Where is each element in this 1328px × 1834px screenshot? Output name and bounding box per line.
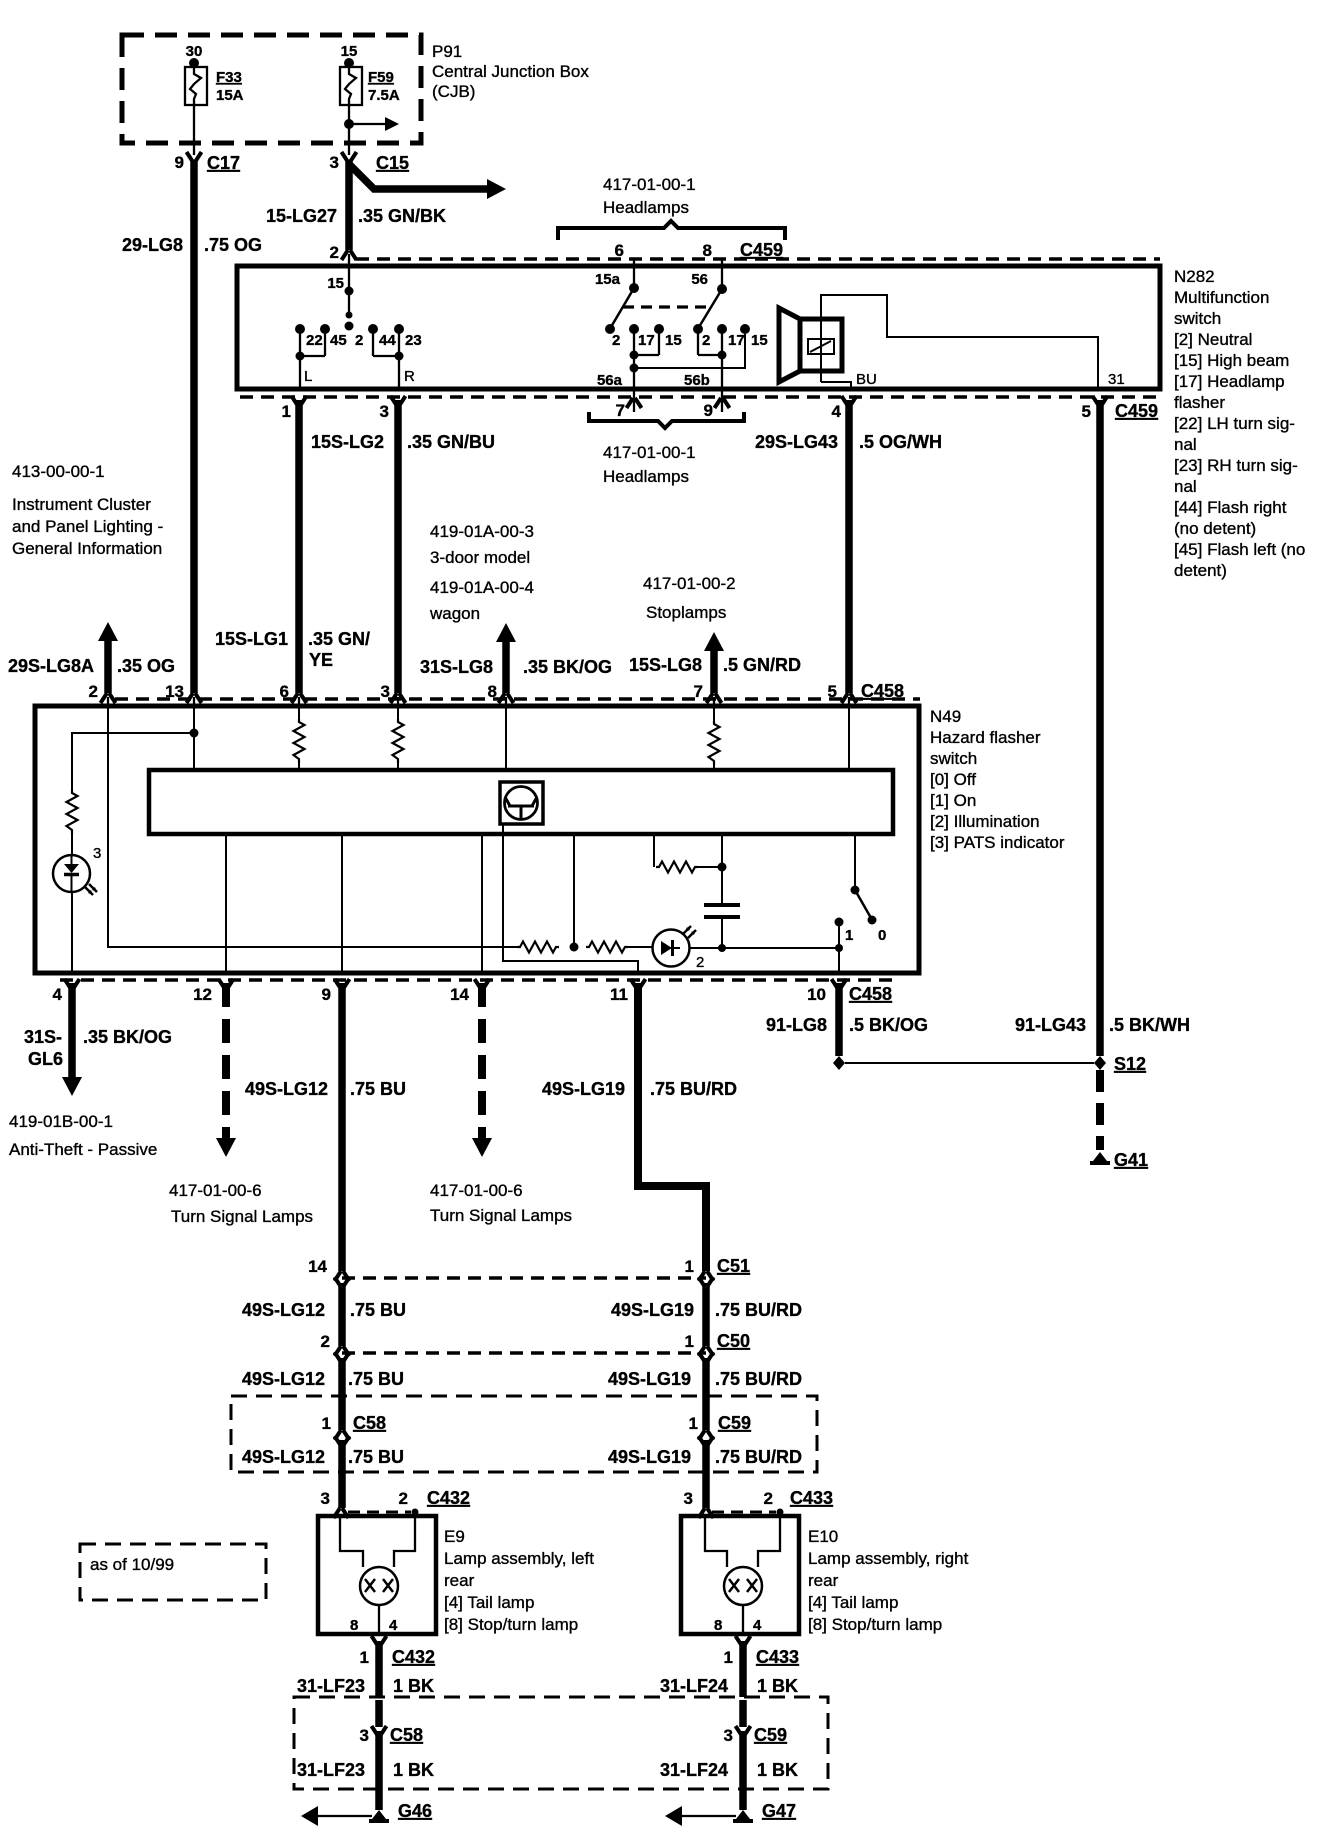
svg-text:Lamp assembly, left: Lamp assembly, left <box>444 1549 594 1568</box>
capacitor C1 <box>721 867 723 903</box>
svg-text:8: 8 <box>703 241 712 260</box>
svg-text:417-01-00-6: 417-01-00-6 <box>430 1181 523 1200</box>
svg-text:GL6: GL6 <box>28 1049 63 1069</box>
svg-text:4: 4 <box>53 985 63 1004</box>
wire 29-LG8 .75 OG (C17 pin 9 down to hazard switch pin 13) <box>190 161 198 693</box>
connector C50 dashed row <box>342 1351 706 1355</box>
svg-text:7: 7 <box>694 682 703 701</box>
wire 91-LG8 (pin 10 to splice S12) <box>835 983 843 1056</box>
wire pin 2 internal routing (down then right along y=947) <box>108 706 519 947</box>
svg-text:C17: C17 <box>207 153 240 173</box>
svg-text:1 BK: 1 BK <box>393 1760 434 1780</box>
svg-text:417-01-00-2: 417-01-00-2 <box>643 574 736 593</box>
svg-text:49S-LG19: 49S-LG19 <box>608 1447 691 1467</box>
svg-text:nal: nal <box>1174 435 1197 454</box>
svg-text:.35 GN/BK: .35 GN/BK <box>358 206 446 226</box>
svg-text:.75 BU: .75 BU <box>348 1369 404 1389</box>
svg-text:2: 2 <box>330 243 339 262</box>
resistor R3b (pin 3 stem) <box>397 706 399 719</box>
svg-text:45: 45 <box>330 332 347 349</box>
svg-text:23: 23 <box>405 332 422 349</box>
resistor R2 (right of junction) <box>586 942 628 953</box>
svg-text:C59: C59 <box>754 1725 787 1745</box>
svg-text:22: 22 <box>306 332 323 349</box>
svg-text:3: 3 <box>380 402 389 421</box>
wire ground bus arrow left (G47) <box>680 1815 736 1817</box>
E9 dual filament bulb <box>360 1567 398 1605</box>
svg-text:[17] Headlamp: [17] Headlamp <box>1174 372 1285 391</box>
transistor U1 symbol <box>500 782 543 824</box>
svg-text:(no detent): (no detent) <box>1174 519 1256 538</box>
svg-text:15S-LG2: 15S-LG2 <box>311 432 384 452</box>
svg-text:1 BK: 1 BK <box>393 1676 434 1696</box>
wire PATS lamp to pin 4 <box>71 892 73 973</box>
svg-text:.75 BU/RD: .75 BU/RD <box>650 1079 737 1099</box>
wire horn feed (thin loop to pin 31) <box>821 295 1098 389</box>
svg-text:[44] Flash right: [44] Flash right <box>1174 498 1287 517</box>
svg-text:1 BK: 1 BK <box>757 1676 798 1696</box>
svg-text:4: 4 <box>389 1617 398 1634</box>
svg-text:2: 2 <box>321 1332 330 1351</box>
svg-text:.5 BK/WH: .5 BK/WH <box>1109 1015 1190 1035</box>
svg-text:31-LF24: 31-LF24 <box>660 1760 728 1780</box>
resistor R4 (horizontal above capacitor) <box>656 862 698 873</box>
svg-text:and Panel Lighting -: and Panel Lighting - <box>12 517 163 536</box>
svg-text:2: 2 <box>764 1489 773 1508</box>
svg-text:417-01-00-1: 417-01-00-1 <box>603 443 696 462</box>
wire horn to BU pin <box>821 382 851 389</box>
svg-text:31: 31 <box>1108 371 1125 388</box>
svg-text:1: 1 <box>685 1332 694 1351</box>
svg-text:C459: C459 <box>740 240 783 260</box>
wire 29S-LG43 (pin4 down to hazard pin 5) <box>845 400 853 693</box>
connector C458 top dashed row <box>115 697 920 701</box>
svg-text:15a: 15a <box>595 271 621 288</box>
ground G47 <box>733 1810 753 1823</box>
as of 10/99 dashed note box <box>80 1544 266 1600</box>
svg-text:detent): detent) <box>1174 561 1227 580</box>
wire 49S-LG12 (C50 to C58) <box>338 1358 346 1430</box>
svg-text:C432: C432 <box>427 1488 470 1508</box>
svg-text:3: 3 <box>684 1489 693 1508</box>
node terminal 44 <box>368 324 378 334</box>
svg-text:17: 17 <box>728 332 745 349</box>
svg-text:14: 14 <box>308 1257 327 1276</box>
wire 31S-GL6 (pin 4 down, page arrow) <box>68 983 76 1078</box>
C458 top connector symbols <box>101 693 116 703</box>
svg-text:29-LG8: 29-LG8 <box>122 235 183 255</box>
svg-text:BU: BU <box>856 371 877 388</box>
svg-text:3-door model: 3-door model <box>430 548 530 567</box>
svg-text:15: 15 <box>327 275 344 292</box>
wire 49S-LG19 (pin 11 down with jog to C51) <box>638 983 706 1271</box>
svg-text:F59: F59 <box>368 69 394 86</box>
svg-text:14: 14 <box>450 985 469 1004</box>
switch arm 56 to 2 <box>699 289 722 327</box>
svg-text:YE: YE <box>309 650 333 670</box>
node terminal 17 (right) <box>717 324 727 334</box>
svg-text:44: 44 <box>379 332 396 349</box>
svg-text:417-01-00-1: 417-01-00-1 <box>603 175 696 194</box>
connector C51 dashed row <box>342 1276 706 1280</box>
node dot 15a <box>629 283 639 293</box>
svg-text:0: 0 <box>878 927 886 944</box>
wire splice link to S12 <box>845 1062 1094 1064</box>
wire 49S-LG12 (C58 to C432) <box>338 1440 346 1508</box>
svg-text:49S-LG19: 49S-LG19 <box>608 1369 691 1389</box>
svg-text:15S-LG8: 15S-LG8 <box>629 655 702 675</box>
svg-text:30: 30 <box>186 43 203 60</box>
node terminal 2 (right group) <box>693 324 703 334</box>
splice diamond left <box>833 1056 845 1070</box>
wire branch to PATS lamp <box>72 733 194 792</box>
svg-text:1: 1 <box>845 927 853 944</box>
wire joining right 2-17 <box>698 354 722 356</box>
svg-text:2: 2 <box>399 1489 408 1508</box>
ground G41 <box>1090 1152 1110 1165</box>
node pin30 dot <box>189 58 199 68</box>
wire pin 8 stem to bar <box>505 706 507 770</box>
wire joining 22 and 45 <box>300 355 325 357</box>
svg-text:8: 8 <box>488 682 497 701</box>
wire dashed to ground G41 <box>1096 1070 1104 1150</box>
svg-text:Instrument Cluster: Instrument Cluster <box>12 495 151 514</box>
svg-text:15A: 15A <box>216 87 244 104</box>
wire 15S-LG2 (pin3 down to hazard pin 3) <box>394 400 402 693</box>
svg-text:[4] Tail lamp: [4] Tail lamp <box>444 1593 534 1612</box>
svg-text:S12: S12 <box>1114 1054 1146 1074</box>
connector C458 bottom dashed row <box>60 978 900 982</box>
wire 31-LF23 (to C58 ground leg) <box>375 1641 383 1697</box>
svg-text:C458: C458 <box>849 984 892 1004</box>
wire 56b leg to pin 9 <box>721 355 723 389</box>
svg-text:49S-LG12: 49S-LG12 <box>245 1079 328 1099</box>
svg-text:49S-LG12: 49S-LG12 <box>242 1369 325 1389</box>
svg-text:[15] High beam: [15] High beam <box>1174 351 1289 370</box>
svg-text:1 BK: 1 BK <box>757 1760 798 1780</box>
svg-text:31-LF23: 31-LF23 <box>297 1676 365 1696</box>
svg-text:.75 BU: .75 BU <box>348 1447 404 1467</box>
svg-text:Central Junction Box: Central Junction Box <box>432 62 589 81</box>
node junction on pin13 stem <box>190 729 199 738</box>
svg-text:C15: C15 <box>376 153 409 173</box>
svg-text:1: 1 <box>685 1257 694 1276</box>
wire LED to switch node <box>690 947 840 949</box>
svg-text:9: 9 <box>322 985 331 1004</box>
svg-text:C458: C458 <box>861 681 904 701</box>
wire joining 44 and 23 <box>373 355 399 357</box>
node junction dot on F59 wire <box>344 119 354 129</box>
multifunction switch N282 box <box>237 266 1160 389</box>
dashed option box around C58/C59 <box>231 1396 817 1472</box>
wire 15S-LG8 with up arrow (to hazard pin 7) <box>704 632 724 651</box>
wire pin 8 stem into box <box>721 259 723 289</box>
svg-text:7: 7 <box>616 401 625 420</box>
svg-text:L: L <box>304 368 312 385</box>
svg-text:.75 BU: .75 BU <box>350 1300 406 1320</box>
svg-text:.75 OG: .75 OG <box>204 235 262 255</box>
svg-text:F33: F33 <box>216 69 242 86</box>
wire contact 1 to pin 10 <box>838 922 840 973</box>
svg-text:15: 15 <box>665 332 682 349</box>
svg-text:[8] Stop/turn lamp: [8] Stop/turn lamp <box>808 1615 942 1634</box>
svg-text:2: 2 <box>696 954 704 971</box>
svg-text:5: 5 <box>1082 402 1091 421</box>
svg-text:49S-LG19: 49S-LG19 <box>611 1300 694 1320</box>
svg-text:Headlamps: Headlamps <box>603 198 689 217</box>
svg-text:6: 6 <box>280 682 289 701</box>
svg-text:C432: C432 <box>392 1647 435 1667</box>
wire bar drop to oscillator node <box>573 834 575 947</box>
dashed gang line between arms <box>623 305 712 308</box>
svg-text:12: 12 <box>193 985 212 1004</box>
svg-text:15: 15 <box>341 43 358 60</box>
splice S12 diamond <box>1094 1056 1106 1070</box>
wire 49S-LG12 dashed (pin 12 down, page arrow) <box>222 983 230 1139</box>
svg-text:C58: C58 <box>353 1413 386 1433</box>
svg-text:[22] LH turn sig-: [22] LH turn sig- <box>1174 414 1295 433</box>
svg-text:E10: E10 <box>808 1527 838 1546</box>
node 56a junction <box>630 364 639 373</box>
LED indicator (lamp 2) <box>653 930 690 967</box>
horn speaker icon <box>779 308 800 382</box>
node terminal 17 (left) <box>629 324 639 334</box>
connector C459 bottom dashed row <box>240 395 1160 399</box>
svg-text:.5 BK/OG: .5 BK/OG <box>849 1015 928 1035</box>
node junction dot <box>835 944 843 952</box>
dashed option box bottom (grounds) <box>294 1697 828 1789</box>
svg-text:G46: G46 <box>398 1801 432 1821</box>
resistor R1 (left of oscillator) <box>517 942 559 953</box>
node pin15 dot <box>344 58 354 68</box>
node junction dot <box>570 943 579 952</box>
svg-text:3: 3 <box>360 1726 369 1745</box>
svg-text:91-LG43: 91-LG43 <box>1015 1015 1086 1035</box>
svg-text:31S-LG8: 31S-LG8 <box>420 657 493 677</box>
switch arm 15a to 2 <box>611 288 634 327</box>
wire 31-LF24 <box>739 1641 747 1697</box>
svg-text:wagon: wagon <box>429 604 480 623</box>
svg-text:Turn Signal Lamps: Turn Signal Lamps <box>430 1206 572 1225</box>
svg-text:.75 BU: .75 BU <box>350 1079 406 1099</box>
svg-text:[23] RH turn sig-: [23] RH turn sig- <box>1174 456 1298 475</box>
svg-text:switch: switch <box>1174 309 1221 328</box>
wire 31-LF23 (C58 to ground) <box>375 1700 383 1727</box>
svg-text:[4] Tail lamp: [4] Tail lamp <box>808 1593 898 1612</box>
svg-text:[2] Neutral: [2] Neutral <box>1174 330 1252 349</box>
connector C459 top dashed row <box>356 257 1160 261</box>
wire fuse F33 to C17 <box>193 105 195 155</box>
inner contact bar <box>149 770 893 834</box>
svg-text:Multifunction: Multifunction <box>1174 288 1269 307</box>
svg-text:1: 1 <box>322 1414 331 1433</box>
lamp assembly E10 box <box>681 1516 799 1634</box>
wire 91-LG43 (pin5 down to S12) <box>1096 400 1104 1056</box>
svg-text:N282: N282 <box>1174 267 1215 286</box>
svg-text:49S-LG12: 49S-LG12 <box>242 1300 325 1320</box>
svg-text:49S-LG12: 49S-LG12 <box>242 1447 325 1467</box>
svg-text:[2] Illumination: [2] Illumination <box>930 812 1040 831</box>
C458 bottom connector symbols <box>65 979 80 989</box>
svg-text:C51: C51 <box>717 1256 750 1276</box>
junction box P91 (Central Junction Box, dashed enclosure) <box>122 35 421 143</box>
svg-text:31-LF24: 31-LF24 <box>660 1676 728 1696</box>
svg-text:rear: rear <box>444 1571 475 1590</box>
wire bar drop to RC network <box>653 834 655 867</box>
svg-text:.35 BK/OG: .35 BK/OG <box>83 1027 172 1047</box>
wire 56a leg to pin 7 <box>633 355 635 389</box>
wire bar to pin 14 <box>481 834 483 973</box>
fuse F59 7.5A <box>340 67 362 105</box>
wire dashed (pin 14 down, page arrow) <box>478 983 486 1139</box>
svg-text:Stoplamps: Stoplamps <box>646 603 726 622</box>
svg-text:(CJB): (CJB) <box>432 82 475 101</box>
wire pin2 internal stem <box>348 266 350 313</box>
node junction dot <box>718 863 727 872</box>
svg-text:[3] PATS indicator: [3] PATS indicator <box>930 833 1065 852</box>
svg-text:49S-LG19: 49S-LG19 <box>542 1079 625 1099</box>
svg-text:.35 OG: .35 OG <box>117 656 175 676</box>
svg-text:31S-: 31S- <box>24 1027 62 1047</box>
svg-text:Headlamps: Headlamps <box>603 467 689 486</box>
svg-text:1: 1 <box>689 1414 698 1433</box>
svg-text:4: 4 <box>753 1617 762 1634</box>
wire L leg to pin 1 <box>299 356 301 389</box>
E10 dual filament bulb <box>724 1567 762 1605</box>
svg-text:.75 BU/RD: .75 BU/RD <box>715 1447 802 1467</box>
svg-text:[8] Stop/turn lamp: [8] Stop/turn lamp <box>444 1615 578 1634</box>
node terminal 23 <box>394 324 404 334</box>
svg-text:3: 3 <box>321 1489 330 1508</box>
svg-text:419-01A-00-4: 419-01A-00-4 <box>430 578 534 597</box>
svg-text:11: 11 <box>610 985 628 1004</box>
svg-text:17: 17 <box>638 332 655 349</box>
wire 49S-LG12 (C51 to C50) <box>338 1283 346 1346</box>
node terminal 15 (right) <box>740 324 750 334</box>
wire pin 13 stem to bar <box>193 706 195 770</box>
svg-text:413-00-00-1: 413-00-00-1 <box>12 462 105 481</box>
wire R leg to pin 3 <box>398 356 400 389</box>
svg-text:C433: C433 <box>790 1488 833 1508</box>
svg-text:.5 OG/WH: .5 OG/WH <box>859 432 942 452</box>
svg-text:5: 5 <box>828 682 837 701</box>
svg-text:1: 1 <box>282 402 291 421</box>
svg-text:6: 6 <box>615 241 624 260</box>
svg-text:56a: 56a <box>597 372 623 389</box>
svg-text:C50: C50 <box>717 1331 750 1351</box>
svg-text:1: 1 <box>360 1648 369 1667</box>
svg-text:C433: C433 <box>756 1647 799 1667</box>
svg-text:4: 4 <box>832 402 842 421</box>
svg-text:31-LF23: 31-LF23 <box>297 1760 365 1780</box>
svg-text:7.5A: 7.5A <box>368 87 400 104</box>
svg-text:15S-LG1: 15S-LG1 <box>215 629 288 649</box>
svg-text:.35 GN/BU: .35 GN/BU <box>407 432 495 452</box>
wire pin 5 stem to bar <box>848 706 850 770</box>
svg-text:G41: G41 <box>1114 1150 1148 1170</box>
svg-text:91-LG8: 91-LG8 <box>766 1015 827 1035</box>
svg-text:G47: G47 <box>762 1801 796 1821</box>
svg-text:Hazard flasher: Hazard flasher <box>930 728 1041 747</box>
svg-text:3: 3 <box>381 682 390 701</box>
svg-text:2: 2 <box>702 332 710 349</box>
resistor R6 (pin 6 stem) <box>298 706 300 719</box>
wire 49S-LG19 (C59 to C433) <box>702 1440 710 1508</box>
svg-text:as of 10/99: as of 10/99 <box>90 1555 174 1574</box>
svg-text:.35 BK/OG: .35 BK/OG <box>523 657 612 677</box>
node dot 56 <box>717 284 727 294</box>
wire 15S-LG1 (pin1 down to hazard pin 6) <box>295 400 303 693</box>
svg-text:[45] Flash left (no: [45] Flash left (no <box>1174 540 1305 559</box>
wire joining 17-15 left <box>634 354 659 356</box>
node terminal 22 <box>295 324 305 334</box>
wire bar to pin 12 <box>225 834 227 973</box>
svg-text:General Information: General Information <box>12 539 162 558</box>
svg-text:Anti-Theft - Passive: Anti-Theft - Passive <box>9 1140 157 1159</box>
node dot on stem <box>345 287 354 296</box>
svg-text:flasher: flasher <box>1174 393 1225 412</box>
E9 internal filament feeds <box>340 1518 363 1567</box>
bracket headlamps bottom <box>589 412 744 428</box>
node contact 1 <box>835 918 844 927</box>
svg-text:.5 GN/RD: .5 GN/RD <box>723 655 801 675</box>
wire bulb to pin 1 <box>742 1605 744 1634</box>
svg-text:56b: 56b <box>684 372 710 389</box>
wire 31-LF24 (C59 to ground) <box>739 1700 747 1727</box>
wire 56a cross link to right 15 <box>634 334 745 368</box>
svg-text:.75 BU/RD: .75 BU/RD <box>715 1300 802 1320</box>
wire bulb to pin 1 <box>378 1605 380 1634</box>
wire 29S-LG8A with up arrow (to hazard pin 2) <box>98 622 118 641</box>
svg-text:N49: N49 <box>930 707 961 726</box>
svg-text:1: 1 <box>724 1648 733 1667</box>
node terminal 2 (left high-beam group) <box>605 324 615 334</box>
svg-text:2: 2 <box>355 332 363 349</box>
wire 49S-LG19 (C51 to C50) <box>702 1283 710 1346</box>
svg-text:56: 56 <box>691 271 708 288</box>
svg-text:switch: switch <box>930 749 977 768</box>
svg-text:3: 3 <box>330 153 339 172</box>
wire 15-LG27 .35 GN/BK (C15 pin 3 down to multifunction switch pin 2) <box>345 161 353 250</box>
svg-text:8: 8 <box>714 1617 722 1634</box>
svg-text:3: 3 <box>724 1726 733 1745</box>
wire bar drop to cap junction <box>721 834 723 867</box>
svg-text:[1] On: [1] On <box>930 791 976 810</box>
wire 49S-LG19 (C50 to C59) <box>702 1358 710 1430</box>
svg-text:[0] Off: [0] Off <box>930 770 976 789</box>
svg-text:nal: nal <box>1174 477 1197 496</box>
PATS indicator LED (lamp 3) <box>53 855 90 892</box>
E10 internal filament feeds <box>705 1518 727 1567</box>
svg-text:13: 13 <box>165 682 184 701</box>
svg-text:9: 9 <box>175 153 184 172</box>
wire 31S-LG8 with up arrow (to hazard pin 8) <box>496 623 516 642</box>
svg-text:2: 2 <box>89 682 98 701</box>
svg-text:419-01A-00-3: 419-01A-00-3 <box>430 522 534 541</box>
lamp assembly E9 box <box>318 1516 436 1634</box>
wire fuse F59 to C15 <box>348 105 350 155</box>
resistor R7 (pin 7 stem) <box>713 706 715 721</box>
svg-text:E9: E9 <box>444 1527 465 1546</box>
node junction dot on LED wire <box>718 944 726 952</box>
hazard flasher switch N49 box <box>35 706 919 973</box>
svg-text:3: 3 <box>93 845 101 862</box>
svg-text:10: 10 <box>807 985 826 1004</box>
wire branch arrow inside CJB <box>349 123 385 125</box>
resistor R3 (above PATS lamp) <box>67 790 78 834</box>
wire bar to pin 9 <box>341 834 343 973</box>
svg-text:C459: C459 <box>1115 401 1158 421</box>
